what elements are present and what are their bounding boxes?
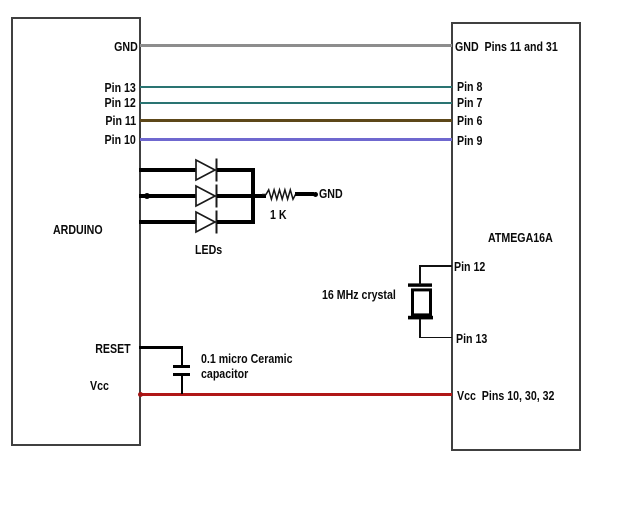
label 0.1 micro Ceramic capacitor: [201, 352, 293, 382]
label Pin 11 (left box): [105, 114, 136, 129]
wire Pin10-Pin9 (periwinkle): [140, 138, 452, 141]
wire Pin13-Pin8 (teal): [140, 86, 452, 89]
LED D1: [190, 155, 225, 185]
wire capacitor to Vcc net: [181, 376, 184, 394]
wire crystal bottom to Pin 13: [419, 319, 421, 338]
wire LED1 cathode to bus: [217, 168, 255, 172]
capacitor C1: [173, 365, 190, 368]
junction dot LED2 anode: [144, 193, 150, 199]
wire Pin12-Pin7 (teal): [140, 102, 452, 105]
junction dot Vcc wire left end: [138, 392, 143, 397]
label 16 MHz crystal: [322, 288, 396, 303]
label ATMEGA16A: [488, 231, 553, 246]
wire LED2 anode: [139, 194, 197, 198]
label Pin 12 (left box): [105, 96, 136, 111]
label Pin 6: [457, 114, 482, 129]
label GND (resistor): [319, 187, 343, 202]
junction dot GND terminal: [313, 192, 318, 197]
wire Vcc net (red): [139, 393, 452, 397]
wire resistor to GND: [295, 192, 314, 196]
label Pin 13 (right box): [456, 332, 487, 347]
label Pin 8: [457, 80, 482, 95]
label ARDUINO: [53, 223, 103, 238]
wire LED3 anode: [139, 220, 197, 224]
label GND (left box): [114, 40, 138, 55]
box U2 ATMEGA16A: [451, 22, 581, 451]
wire GND net (gray): [140, 44, 452, 47]
LED D2: [190, 181, 225, 211]
wire Pin11-Pin6 (brown): [140, 119, 452, 122]
label Vcc (left box): [90, 379, 109, 394]
wire LED3 cathode to bus: [217, 220, 255, 224]
label Pin 10 (left box): [105, 133, 136, 148]
crystal X1: [400, 278, 445, 324]
resistor R1: [262, 186, 298, 204]
wire LED2 cathode to resistor: [217, 194, 266, 198]
LED D3: [190, 207, 225, 237]
label Pin 7: [457, 96, 482, 111]
label LEDs: [195, 243, 222, 258]
wire cathode bus vertical: [251, 168, 255, 224]
label 1 K: [270, 208, 287, 223]
label RESET: [96, 342, 131, 357]
wire crystal top to Pin 12: [419, 265, 421, 285]
label Pin 9: [457, 134, 482, 149]
box U1 ARDUINO: [11, 17, 141, 446]
label GND Pins 11 and 31 (right box): [455, 40, 558, 55]
wire RESET to capacitor: [139, 346, 183, 349]
label Pin 13 (left box): [105, 81, 136, 96]
label Vcc Pins 10, 30, 32: [457, 389, 554, 404]
label Pin 12 (right box): [454, 260, 485, 275]
wire LED1 anode: [139, 168, 197, 172]
